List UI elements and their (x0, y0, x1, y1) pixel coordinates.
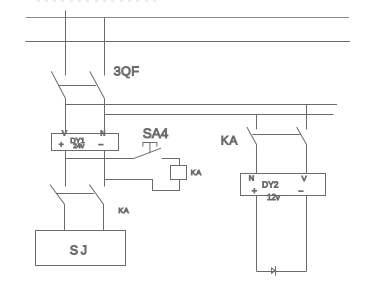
svg-text:−: − (298, 186, 303, 196)
relay contact KA pole 2 blade (89, 185, 103, 205)
circuit breaker 3QF pole 1 blade (51, 71, 65, 98)
svg-text:3QF: 3QF (114, 63, 140, 78)
svg-text:SJ: SJ (70, 243, 90, 257)
relay contact KA pole 1 blade (50, 185, 65, 205)
clipped text row at top edge (37, 0, 156, 2)
wire: feed from + wire to SA4 (66, 158, 134, 160)
wire: bottom connecting wire (257, 271, 307, 273)
svg-text:+: + (59, 139, 64, 149)
wire: H2 down to right KA contact pole 1 (256, 115, 258, 130)
wire: right KA pole 1 to DY2 N terminal (256, 145, 258, 174)
svg-text:+: + (252, 186, 257, 196)
svg-text:N: N (249, 173, 254, 182)
wire: SA4 contact to KA coil top (162, 159, 180, 166)
wire: 3QF pole 1 to DY1 V terminal (65, 98, 67, 133)
circuit breaker 3QF pole 2 blade (90, 71, 105, 98)
diode D1 cathode bar (275, 266, 277, 276)
svg-text:DY2: DY2 (262, 180, 279, 190)
KA contact linkage bar (57, 193, 94, 195)
wire: 3QF pole 2 to DY1 N terminal (104, 98, 106, 133)
svg-text:V: V (302, 174, 307, 183)
power supply DY2 box (241, 174, 326, 196)
power supply DY1 box (52, 134, 119, 151)
svg-text:KA: KA (221, 134, 238, 148)
relay contact KA (right) pole 2 blade (297, 127, 307, 145)
svg-text:24v: 24v (73, 143, 85, 150)
pushbutton SA4 actuator stem (149, 143, 151, 154)
wire: DY1 + down to KA contact pole 1 (65, 151, 67, 187)
wire: KA pole 2 to SJ box (103, 205, 105, 231)
wire: horizontal branch H2 to right circuit (105, 114, 334, 116)
wire: horizontal branch H1 to right circuit (66, 104, 338, 106)
svg-text:N: N (100, 131, 105, 138)
wire: top supply rail (26, 17, 350, 19)
svg-text:SA4: SA4 (143, 126, 169, 141)
relay contact KA (right) pole 1 blade (247, 127, 257, 145)
pushbutton SA4 blade (133, 148, 161, 159)
svg-text:KA: KA (118, 206, 129, 215)
relay coil KA box (171, 166, 187, 180)
svg-text:KA: KA (191, 168, 202, 177)
wire: DY1 - branch to KA coil bottom (105, 180, 180, 191)
wire: second supply rail (26, 41, 351, 43)
pushbutton SA4 actuator cap (143, 143, 157, 147)
diode D1 triangle (272, 268, 275, 273)
KA right contact linkage bar (253, 134, 302, 136)
time relay SJ box (36, 231, 126, 266)
wire: DY1 - down to KA contact pole 2 (104, 151, 106, 187)
wire: drop from top rail to 3QF pole 2 (104, 18, 106, 76)
wire: H1 down to right KA contact pole 2 (306, 105, 308, 130)
3QF mechanical linkage bar (58, 85, 96, 87)
svg-text:12v: 12v (267, 193, 280, 202)
svg-text:−: − (98, 140, 103, 150)
wire: DY2 left output down (256, 196, 258, 272)
wire: drop from above through rails to 3QF pole 1 (65, 11, 67, 76)
wire: DY2 right output down (306, 196, 308, 272)
wire: KA pole 1 to SJ box (64, 205, 66, 231)
wire: right KA pole 2 to DY2 V terminal (306, 145, 308, 174)
